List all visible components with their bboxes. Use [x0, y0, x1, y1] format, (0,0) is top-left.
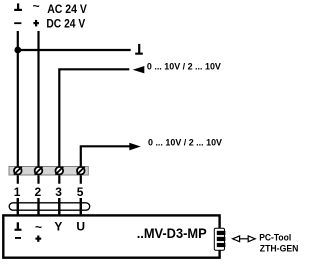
svg-text:5: 5	[77, 185, 84, 199]
svg-text:U: U	[76, 220, 85, 234]
svg-text:3: 3	[55, 185, 62, 199]
svg-text:AC 24 V: AC 24 V	[47, 2, 87, 16]
svg-text:0 ... 10V / 2 ... 10V: 0 ... 10V / 2 ... 10V	[147, 61, 221, 71]
svg-text:PC-Tool: PC-Tool	[259, 232, 291, 242]
svg-text:0 ... 10V / 2 ... 10V: 0 ... 10V / 2 ... 10V	[148, 138, 222, 148]
svg-text:DC 24 V: DC 24 V	[46, 17, 85, 31]
svg-text:2: 2	[34, 185, 41, 199]
svg-text:..MV-D3-MP: ..MV-D3-MP	[137, 225, 207, 241]
svg-text:1: 1	[14, 185, 21, 199]
svg-text:~: ~	[33, 0, 40, 13]
svg-text:~: ~	[35, 220, 42, 234]
svg-text:Y: Y	[54, 220, 62, 234]
svg-text:ZTH-GEN: ZTH-GEN	[260, 243, 299, 253]
